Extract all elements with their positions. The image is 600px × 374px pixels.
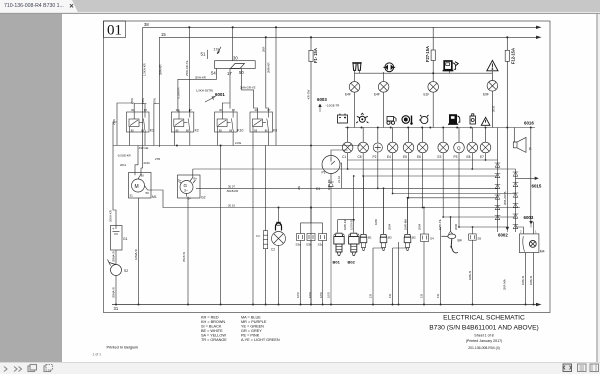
svg-text:1SI: 1SI xyxy=(420,294,424,298)
svg-text:K2: K2 xyxy=(195,129,199,133)
wire feeder from bus 38 left end down to starter circuit xyxy=(141,27,143,175)
wire at 440.6 to bus 31 xyxy=(440,227,442,305)
wire branch from bus15 feeder to under-relay row xyxy=(154,104,159,146)
arrow at 6003 right xyxy=(530,221,533,228)
wire battery G1 to disconnect switch xyxy=(115,250,117,264)
svg-text:201.136-008-R04 (4): 201.136-008-R04 (4) xyxy=(468,346,499,350)
wire B3 to bus 31 xyxy=(373,248,384,305)
svg-text:F27-15A: F27-15A xyxy=(425,46,430,62)
lamp E7 xyxy=(480,128,491,153)
oil pressure icon xyxy=(356,113,368,123)
svg-text:35MA-SI: 35MA-SI xyxy=(111,251,115,262)
fuse F27 xyxy=(431,27,435,81)
relay K1 xyxy=(127,110,150,135)
lamp column wires down xyxy=(348,152,486,227)
svg-text:1SI: 1SI xyxy=(436,294,440,298)
svg-text:F4: F4 xyxy=(256,234,260,238)
lamp C8 xyxy=(358,128,369,153)
lamp E6 xyxy=(417,128,428,153)
svg-text:P3: P3 xyxy=(454,155,458,159)
svg-text:1MR-PE: 1MR-PE xyxy=(438,219,442,230)
svg-text:PE = PINK: PE = PINK xyxy=(241,334,260,338)
wire and fuse F24 column down to bus 31 xyxy=(265,146,267,305)
middle grid row 197.8 xyxy=(409,197,498,199)
svg-text:C8: C8 xyxy=(358,155,362,159)
svg-text:30: 30 xyxy=(233,56,238,61)
junction dots sensor feeds xyxy=(383,187,474,228)
svg-text:M: M xyxy=(135,184,139,190)
grid junction dots xyxy=(347,159,487,228)
lamp E4 xyxy=(387,128,398,153)
lamp E5 xyxy=(403,128,414,153)
svg-text:1MR-KE: 1MR-KE xyxy=(327,179,331,190)
starter motor M1 xyxy=(129,173,152,199)
wire vertical at node 189 from bus 38 down to relay row xyxy=(188,27,190,112)
svg-text:1MA-SI: 1MA-SI xyxy=(468,270,472,280)
svg-text:2TR: 2TR xyxy=(155,157,160,161)
svg-text:87: 87 xyxy=(189,108,192,112)
lamp P2 xyxy=(373,128,382,153)
svg-text:-50LB-KR: -50LB-KR xyxy=(226,189,238,193)
wire M4 top feeds xyxy=(516,128,534,231)
svg-text:1,0KH-SI(TR): 1,0KH-SI(TR) xyxy=(196,89,213,93)
svg-text:2SW-KR-YE: 2SW-KR-YE xyxy=(185,60,189,76)
svg-text:K3: K3 xyxy=(273,129,277,133)
injector sensor B02 xyxy=(348,233,359,255)
wire lamps down to cluster strip xyxy=(355,92,434,127)
ignition switch block xyxy=(215,61,256,71)
svg-text:1,5KH-KR: 1,5KH-KR xyxy=(142,63,146,76)
svg-text:E4F: E4F xyxy=(374,93,380,97)
middle grid row 169 xyxy=(193,168,516,170)
wire feeder from bus 15 left end down to relay row xyxy=(158,37,160,147)
svg-text:KH = BROWN: KH = BROWN xyxy=(201,320,225,324)
svg-text:S3a: S3a xyxy=(296,242,302,246)
schematic frame xyxy=(104,21,551,313)
left wire from frame area down to under-relay row xyxy=(113,103,134,146)
lamp E8 xyxy=(467,128,478,153)
svg-text:6016: 6016 xyxy=(524,121,534,126)
svg-text:B2: B2 xyxy=(412,236,416,240)
svg-text:2084: 2084 xyxy=(388,223,392,230)
lamp E3 xyxy=(438,128,449,153)
svg-text:B4: B4 xyxy=(458,239,462,243)
under-relay row wire xyxy=(113,145,360,147)
svg-text:31: 31 xyxy=(114,306,119,311)
svg-text:2084: 2084 xyxy=(418,223,422,230)
diode ladder column A xyxy=(495,128,501,233)
svg-text:S2: S2 xyxy=(124,269,128,273)
wire vertical from bus 38 down to ignition switch pin 30 xyxy=(232,27,234,60)
svg-text:15: 15 xyxy=(161,32,166,37)
svg-text:S3c: S3c xyxy=(318,242,324,246)
svg-text:S3b: S3b xyxy=(306,242,312,246)
connector S4 xyxy=(421,208,429,305)
battery G1 xyxy=(111,226,123,251)
sensor B3 temperature switch xyxy=(380,188,387,250)
svg-text:C2: C2 xyxy=(271,248,275,252)
fuel level sender B4 xyxy=(441,217,458,253)
beacon lamp C2 feed from row xyxy=(278,208,280,223)
svg-text:2010: 2010 xyxy=(144,161,151,165)
svg-text:21.41: 21.41 xyxy=(337,176,341,183)
wire vertical K3 pin 85 down to bus 31 xyxy=(252,146,254,305)
svg-text:B02: B02 xyxy=(348,260,356,265)
horn icon xyxy=(352,63,361,71)
svg-text:E5: E5 xyxy=(403,155,407,159)
hour meter P1 xyxy=(322,156,340,174)
svg-text:S4: S4 xyxy=(430,237,434,241)
wire under horn and motor icons xyxy=(355,71,493,82)
fuse F12 xyxy=(505,37,509,227)
node 6015 arrow xyxy=(516,177,539,179)
svg-text:Q: Q xyxy=(457,145,461,150)
wire hour meter up to B+ row xyxy=(331,150,348,182)
svg-text:K10: K10 xyxy=(237,129,243,133)
svg-text:2KR: 2KR xyxy=(262,47,266,52)
svg-text:16SI: 16SI xyxy=(319,292,323,298)
svg-text:1SI: 1SI xyxy=(369,294,373,298)
svg-text:D1: D1 xyxy=(316,187,320,191)
middle grid row 227 xyxy=(459,226,509,228)
svg-text:D+: D+ xyxy=(178,179,182,183)
connector S5 xyxy=(469,227,477,305)
svg-text:2MA-KR: 2MA-KR xyxy=(159,64,163,75)
wire feeds to injectors B01 B02 xyxy=(338,175,355,232)
svg-text:E8: E8 xyxy=(467,155,471,159)
middle grid row 193.5 xyxy=(393,193,516,195)
svg-text:E4: E4 xyxy=(387,155,391,159)
battery disconnect switch S2 xyxy=(108,260,122,276)
svg-text:6003: 6003 xyxy=(317,97,327,102)
svg-text:G1: G1 xyxy=(123,237,128,241)
svg-text:6001: 6001 xyxy=(215,92,225,97)
svg-text:35LB-SI: 35LB-SI xyxy=(182,252,186,262)
wires M4 to bus 31 xyxy=(526,255,534,305)
svg-text:35KH-KR: 35KH-KR xyxy=(109,210,113,222)
wire S3 tee from F1 column xyxy=(301,208,323,234)
wire bus15 branch into K3 pin 87 xyxy=(266,108,269,110)
alternator G2 xyxy=(178,175,201,198)
wire vertical K10 bottom to bus 31 xyxy=(220,146,222,305)
wire from bus 15 down to relay K3 pin 87 xyxy=(265,37,267,108)
svg-text:- 0,5GE-TR: - 0,5GE-TR xyxy=(325,104,339,108)
svg-text:-KW-GE: -KW-GE xyxy=(138,146,148,150)
lamp E9F warning xyxy=(487,71,498,128)
svg-text:38: 38 xyxy=(144,22,149,27)
svg-text:2SW: 2SW xyxy=(153,98,157,104)
svg-text:1: 1 xyxy=(535,230,537,234)
lamp E4F wiper xyxy=(378,82,389,93)
connector S3a xyxy=(297,234,305,305)
svg-text:0,5SI/TR: 0,5SI/TR xyxy=(177,87,181,98)
lamp E1F fuel xyxy=(428,82,439,93)
warning triangle icon top xyxy=(487,60,498,70)
fan motor M4 xyxy=(520,231,539,256)
svg-text:17: 17 xyxy=(227,71,232,76)
wires B2 to bus 31 xyxy=(393,242,408,305)
svg-text:2086: 2086 xyxy=(454,223,458,230)
svg-text:G2: G2 xyxy=(201,196,206,200)
svg-text:2-KE: 2-KE xyxy=(235,141,241,145)
svg-text:E9F: E9F xyxy=(483,93,489,97)
svg-text:B730 (S/N B4B611001 AND ABOVE): B730 (S/N B4B611001 AND ABOVE) xyxy=(429,325,539,332)
svg-text:16SI: 16SI xyxy=(327,292,331,298)
svg-text:54: 54 xyxy=(211,71,216,76)
connector S3b xyxy=(307,234,315,305)
wire branch from bus38 feeder to relay K1 pins xyxy=(134,104,146,113)
wire alternator B- to bus 31 xyxy=(187,197,189,305)
svg-text:2MA-KR: 2MA-KR xyxy=(267,62,271,73)
arrow at 6003 xyxy=(319,104,322,112)
svg-text:16SI: 16SI xyxy=(296,292,300,298)
svg-text:ELECTRICAL SCHEMATIC: ELECTRICAL SCHEMATIC xyxy=(443,315,525,322)
svg-text:P2: P2 xyxy=(373,155,377,159)
svg-text:SI = BLACK: SI = BLACK xyxy=(201,325,222,329)
svg-text:2SW: 2SW xyxy=(112,119,116,125)
svg-text:Sheet 1 of 8: Sheet 1 of 8 xyxy=(474,333,493,337)
lamp C1 xyxy=(342,128,353,153)
svg-text:3~: 3~ xyxy=(184,189,188,193)
svg-text:GR = GREY: GR = GREY xyxy=(241,329,262,333)
wire from ignition 17 into K10 pin 30 xyxy=(222,103,230,110)
wire P1 second terminal to row xyxy=(340,163,342,188)
arrow pointer to node 6001 xyxy=(205,97,216,103)
wire battery G1 top cable xyxy=(113,146,116,226)
coolant temperature icon xyxy=(402,116,413,125)
sheet number box 01 xyxy=(104,21,126,38)
svg-text:2011: 2011 xyxy=(120,163,126,167)
svg-text:1MA-SI: 1MA-SI xyxy=(529,275,533,285)
svg-text:6002: 6002 xyxy=(498,233,508,238)
svg-text:F1- 15A: F1- 15A xyxy=(313,48,318,63)
svg-text:KR = RED: KR = RED xyxy=(201,316,219,320)
svg-text:2KW-KR: 2KW-KR xyxy=(195,75,206,79)
wiper motor icon xyxy=(383,63,395,72)
wire vertical at node 276 from bus 38 down to relay row xyxy=(275,27,277,145)
wire from ignition pin 54 to node 189 xyxy=(178,71,217,113)
injector sensor B01 xyxy=(334,233,345,255)
svg-text:B1: B1 xyxy=(368,236,372,240)
wire relay bottoms to under-relay row xyxy=(130,135,269,146)
middle grid row 176 xyxy=(363,175,497,177)
bus 31 xyxy=(112,303,542,306)
svg-text:6003: 6003 xyxy=(524,215,534,220)
small box icon right row2 xyxy=(470,114,476,124)
svg-text:E6: E6 xyxy=(417,155,421,159)
svg-text:K1: K1 xyxy=(150,129,154,133)
sensor B2 coolant sensor xyxy=(404,198,411,251)
junction dots on bus 31 right xyxy=(300,304,535,306)
svg-text:51: 51 xyxy=(201,52,206,57)
diode ladder column B xyxy=(513,169,519,232)
wire alternator B+ to long row xyxy=(190,169,193,181)
svg-text:-KR-SW: -KR-SW xyxy=(306,89,310,100)
svg-text:1MR-MA: 1MR-MA xyxy=(404,219,408,230)
svg-text:E1F: E1F xyxy=(424,93,430,97)
beacon lamp C2 xyxy=(272,232,286,246)
svg-text:E3: E3 xyxy=(438,155,442,159)
svg-text:MR = PURPLE: MR = PURPLE xyxy=(241,320,267,324)
battery charge icon xyxy=(338,114,348,124)
wire labels tiny along bottom verticals xyxy=(296,179,458,298)
junction dots on bus 31 left xyxy=(115,207,312,306)
svg-text:0,5SI-SI: 0,5SI-SI xyxy=(350,220,354,230)
svg-text:2SI: 2SI xyxy=(297,186,301,190)
instrument cluster strip wire xyxy=(345,127,535,129)
svg-text:6015: 6015 xyxy=(532,184,542,189)
svg-text:MA = BLUE: MA = BLUE xyxy=(241,316,261,320)
svg-text:BE = WHITE: BE = WHITE xyxy=(201,329,223,333)
svg-text:E4F: E4F xyxy=(345,93,351,97)
wire from ignition pin 50 to relay K3 pin 30 xyxy=(242,71,254,109)
relay K3 xyxy=(250,110,273,135)
diode D1 inline xyxy=(328,182,334,305)
svg-text:Printed In Belgium: Printed In Belgium xyxy=(107,344,139,349)
middle grid row 160 xyxy=(348,159,498,161)
svg-text:M4: M4 xyxy=(540,250,545,254)
svg-text:16SI: 16SI xyxy=(308,292,312,298)
gauge P3 xyxy=(454,128,465,153)
svg-text:87: 87 xyxy=(268,108,271,112)
arrow at 6002 xyxy=(506,227,509,232)
svg-text:C1: C1 xyxy=(342,155,346,159)
wire starter M1 50 long row right xyxy=(148,190,521,209)
svg-text:20.10: 20.10 xyxy=(228,203,235,207)
svg-text:(Printed January 2017): (Printed January 2017) xyxy=(466,339,503,343)
lamp E4F horn xyxy=(349,82,360,93)
fuel pump icon row2 xyxy=(448,115,460,125)
svg-text:M1: M1 xyxy=(152,195,157,199)
svg-text:2: 2 xyxy=(520,230,522,234)
svg-text:1MR-KE: 1MR-KE xyxy=(343,219,347,230)
svg-text:17a: 17a xyxy=(214,48,220,52)
svg-text:E7: E7 xyxy=(480,155,484,159)
ignition switch S1 contact symbol xyxy=(208,47,222,59)
svg-text:SA = YELLOW: SA = YELLOW xyxy=(201,334,226,338)
svg-text:A.YE = LIGHT GREEN: A.YE = LIGHT GREEN xyxy=(241,338,280,342)
svg-text:2KR-MA: 2KR-MA xyxy=(503,279,507,290)
relay K2 xyxy=(171,110,194,135)
warning triangle icon row2 xyxy=(481,117,490,125)
bus 38 xyxy=(143,26,542,29)
svg-text:-0,5GE-KR: -0,5GE-KR xyxy=(117,154,131,158)
svg-text:B01: B01 xyxy=(333,260,341,265)
status bar icons right xyxy=(563,364,599,372)
fuse F24 striped xyxy=(263,231,267,249)
engine preheat icon xyxy=(419,115,428,124)
svg-text:B3: B3 xyxy=(388,236,392,240)
svg-text:30: 30 xyxy=(141,174,145,178)
connector S3c xyxy=(319,234,327,305)
bus 15 xyxy=(159,36,541,39)
loader machine icon xyxy=(387,117,396,125)
svg-text:B+: B+ xyxy=(194,177,198,181)
middle grid row 188 xyxy=(378,187,498,189)
svg-text:S5: S5 xyxy=(478,237,482,241)
middle grid row 217 xyxy=(443,216,515,218)
svg-text:G: G xyxy=(184,183,188,188)
svg-text:TR = ORANGE: TR = ORANGE xyxy=(201,338,227,342)
speaker B xyxy=(513,128,526,153)
status bar icons left xyxy=(4,365,53,372)
wire under-relay row down to starter M1 xyxy=(135,146,138,176)
legend text block xyxy=(201,316,280,343)
wire from ignition pin 17 down to relay K10 xyxy=(229,71,231,109)
svg-text:30.07: 30.07 xyxy=(228,184,235,188)
svg-text:F12-15A: F12-15A xyxy=(510,48,515,64)
svg-text:YE = GREEN: YE = GREEN xyxy=(241,325,264,329)
svg-text:87: 87 xyxy=(144,108,147,112)
svg-text:87: 87 xyxy=(232,108,235,112)
svg-text:+: + xyxy=(112,226,115,231)
long row from alternator area xyxy=(196,187,378,189)
svg-text:31: 31 xyxy=(130,194,134,198)
svg-text:1SI: 1SI xyxy=(388,294,392,298)
svg-text:35MA-SI: 35MA-SI xyxy=(111,287,115,298)
svg-text:2MA-GR-YE: 2MA-GR-YE xyxy=(240,86,256,90)
relay K10 xyxy=(215,110,238,135)
beacon icon xyxy=(276,222,282,230)
svg-text:1MR: 1MR xyxy=(374,219,378,225)
sensor B1 oil pressure switch xyxy=(360,176,367,251)
svg-text:1MA-SI: 1MA-SI xyxy=(521,275,525,285)
svg-text:16MA-SI: 16MA-SI xyxy=(134,249,138,260)
svg-text:P1: P1 xyxy=(322,171,326,175)
wire disconnect switch to bus 31 xyxy=(115,276,117,305)
svg-text:01: 01 xyxy=(107,23,122,39)
wire starter M1 bottom to bus 31 xyxy=(138,198,140,305)
fuel pump station icon top xyxy=(443,61,459,71)
svg-text:50: 50 xyxy=(146,191,150,195)
fuse F1 xyxy=(309,37,313,304)
wire beacon to bus 31 xyxy=(278,246,280,305)
svg-text:1 of 1: 1 of 1 xyxy=(93,353,102,357)
wire ignition 50 into K3 pin 30 xyxy=(254,108,258,110)
svg-text:2SW: 2SW xyxy=(141,98,145,104)
svg-text:2016: 2016 xyxy=(492,105,496,112)
